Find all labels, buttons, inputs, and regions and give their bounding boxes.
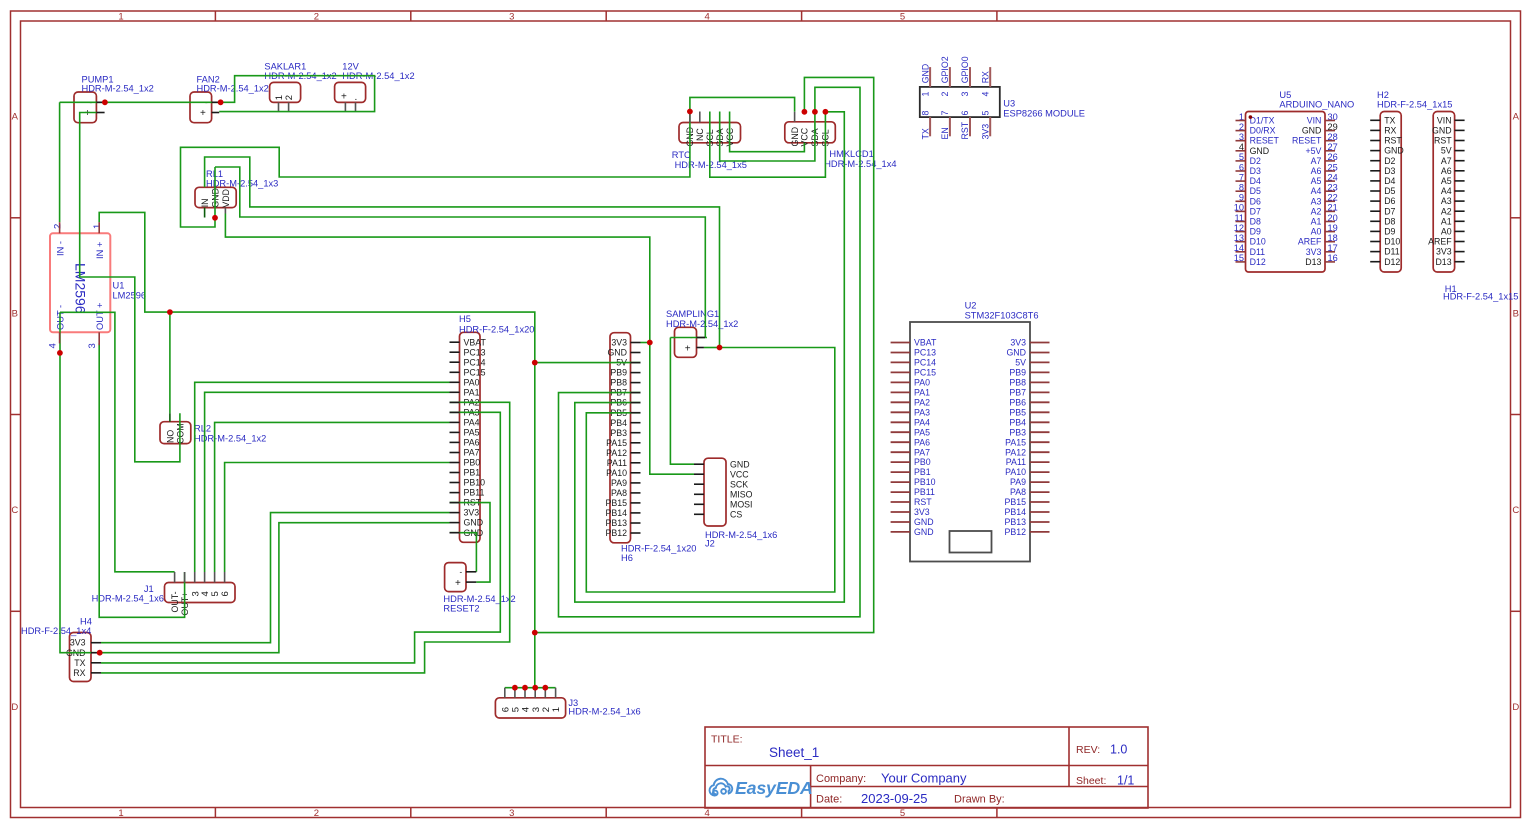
svg-text:Drawn By:: Drawn By:: [954, 794, 1005, 806]
svg-text:+: +: [455, 578, 461, 589]
wire J1 pin6 to H5 PB0: [225, 463, 450, 573]
svg-text:A2: A2: [1311, 206, 1322, 216]
connector RL2 HDR-M-2.54_1x2: [160, 422, 266, 444]
svg-text:D8: D8: [1384, 216, 1395, 226]
svg-text:VIN: VIN: [1437, 115, 1452, 125]
svg-text:+5V: +5V: [1305, 146, 1321, 156]
svg-text:PA11: PA11: [607, 458, 627, 468]
svg-text:IN +: IN +: [95, 242, 105, 259]
svg-text:1: 1: [118, 12, 123, 23]
svg-text:D10: D10: [1384, 237, 1400, 247]
connector H1 HDR-F-2.54_1x15: [1428, 112, 1518, 302]
svg-text:Sheet_1: Sheet_1: [769, 745, 819, 760]
svg-text:VIN: VIN: [1307, 116, 1322, 126]
svg-text:1: 1: [551, 707, 562, 712]
svg-text:D11: D11: [1250, 247, 1266, 257]
svg-text:A7: A7: [1311, 156, 1322, 166]
svg-text:D5: D5: [1250, 186, 1261, 196]
svg-text:6: 6: [220, 591, 231, 596]
svg-text:PA15: PA15: [1005, 437, 1026, 447]
svg-text:Sheet:: Sheet:: [1076, 775, 1106, 787]
svg-text:ARDUINO_NANO: ARDUINO_NANO: [1279, 100, 1354, 110]
svg-text:D12: D12: [1250, 257, 1266, 267]
svg-text:3: 3: [509, 12, 514, 23]
wire H5 RST to RESET2 plus: [450, 503, 491, 582]
svg-text:HDR-M-2.54_1x3: HDR-M-2.54_1x3: [206, 179, 278, 189]
svg-text:3V3: 3V3: [1306, 247, 1322, 257]
svg-text:+: +: [85, 108, 91, 119]
svg-text:PB15: PB15: [1004, 497, 1026, 507]
svg-text:H5: H5: [459, 314, 471, 324]
wire J3 pin rail: [505, 687, 556, 689]
wire HMKLCD VCC branch: [535, 77, 874, 632]
svg-text:+: +: [341, 92, 347, 103]
connector J1 HDR-M-2.54_1x6: [92, 583, 235, 616]
svg-text:PA15: PA15: [606, 438, 627, 448]
junction HMKLCD VCC branch: [532, 630, 538, 636]
svg-text:MISO: MISO: [730, 489, 753, 499]
svg-text:D4: D4: [1250, 176, 1261, 186]
connector SAMPLING1 HDR-M-2.54_1x2: [666, 309, 738, 357]
junction SAMPLING1 plus pin: [717, 345, 723, 351]
svg-text:D: D: [1512, 702, 1519, 713]
svg-text:PA9: PA9: [1010, 477, 1026, 487]
svg-text:A4: A4: [1311, 186, 1322, 196]
svg-text:Your Company: Your Company: [881, 771, 967, 786]
svg-text:GND: GND: [1432, 126, 1452, 136]
svg-text:PA2: PA2: [914, 397, 930, 407]
svg-text:AREF: AREF: [1298, 237, 1322, 247]
svg-text:U1: U1: [113, 281, 125, 291]
svg-text:PA3: PA3: [914, 407, 930, 417]
wire RTC SDA to HMKLCD SDA: [720, 112, 815, 162]
svg-text:VDD: VDD: [221, 189, 231, 208]
wire RTC GND to HMKLCD GND: [690, 97, 795, 111]
svg-text:A0: A0: [1311, 227, 1322, 237]
junction HMKLCD SCL pin: [823, 109, 829, 115]
svg-text:GND: GND: [1006, 348, 1026, 358]
svg-text:2023-09-25: 2023-09-25: [861, 791, 928, 806]
svg-text:3V3: 3V3: [464, 508, 480, 518]
svg-text:H2: H2: [1377, 90, 1389, 100]
junction H6 5V branch: [532, 360, 538, 366]
svg-text:SAMPLING1: SAMPLING1: [666, 309, 719, 319]
svg-text:4: 4: [48, 343, 59, 348]
svg-text:12V: 12V: [342, 61, 359, 71]
svg-text:ESP8266 MODULE: ESP8266 MODULE: [1003, 108, 1085, 118]
svg-text:PB4: PB4: [610, 418, 627, 428]
svg-text:PB13: PB13: [605, 518, 627, 528]
svg-text:PB1: PB1: [914, 467, 931, 477]
svg-text:IN -: IN -: [56, 241, 66, 256]
wire J1 pin4 to H5 PA1: [205, 392, 450, 572]
svg-text:5V: 5V: [1015, 358, 1026, 368]
svg-text:PA6: PA6: [464, 438, 480, 448]
svg-text:HDR-M-2.54_1x2: HDR-M-2.54_1x2: [666, 319, 738, 329]
svg-text:TX: TX: [1384, 115, 1395, 125]
svg-text:GPIO2: GPIO2: [940, 56, 950, 83]
svg-text:RST: RST: [1434, 136, 1452, 146]
svg-text:TITLE:: TITLE:: [711, 734, 743, 746]
svg-text:PB14: PB14: [1004, 507, 1026, 517]
wire HMKLCD SCL to H6 PB6: [575, 112, 845, 602]
svg-text:PC14: PC14: [914, 358, 936, 368]
svg-text:PA8: PA8: [1010, 487, 1026, 497]
junction H4 GND pin: [97, 650, 103, 656]
svg-text:D3: D3: [1250, 166, 1261, 176]
svg-text:HDR-M-2.54_1x2: HDR-M-2.54_1x2: [197, 83, 269, 93]
wire J1 pin3 to H5 PA0: [195, 382, 450, 572]
connector J3 HDR-M-2.54_1x6: [495, 698, 640, 718]
svg-text:2: 2: [53, 224, 64, 229]
svg-text:OUT +: OUT +: [95, 303, 105, 330]
svg-text:PA7: PA7: [464, 448, 480, 458]
connector HMKLCD1 HDR-M-2.54_1x4: [785, 122, 897, 169]
svg-text:GND: GND: [730, 459, 750, 469]
svg-text:A6: A6: [1441, 166, 1452, 176]
svg-text:D13: D13: [1305, 257, 1321, 267]
svg-text:AREF: AREF: [1428, 237, 1452, 247]
svg-text:U5: U5: [1279, 90, 1291, 100]
wire RL1 GND loop to RTC GND: [181, 112, 690, 228]
junction RL1 GND pin: [212, 215, 218, 221]
svg-text:PC13: PC13: [464, 347, 486, 357]
svg-text:PA5: PA5: [464, 428, 480, 438]
svg-text:PB12: PB12: [1004, 527, 1026, 537]
svg-text:HDR-M-2.54_1x2: HDR-M-2.54_1x2: [443, 594, 515, 604]
svg-text:D5: D5: [1384, 186, 1395, 196]
svg-text:GPIO0: GPIO0: [960, 56, 970, 83]
svg-text:C: C: [11, 505, 18, 516]
svg-text:D: D: [11, 702, 18, 713]
svg-text:3V3: 3V3: [611, 338, 627, 348]
svg-text:PA6: PA6: [914, 437, 930, 447]
svg-text:GND: GND: [1302, 126, 1322, 136]
svg-text:3V3: 3V3: [914, 507, 930, 517]
connector RESET2 HDR-M-2.54_1x2: [443, 563, 515, 614]
svg-text:A5: A5: [1311, 176, 1322, 186]
svg-text:PB9: PB9: [610, 368, 627, 378]
component pin stubs: [60, 67, 1465, 698]
svg-text:7: 7: [940, 111, 950, 116]
svg-text:RESET2: RESET2: [443, 604, 479, 614]
svg-text:1: 1: [920, 92, 930, 97]
svg-text:EN: EN: [940, 127, 950, 139]
svg-text:H6: H6: [621, 553, 633, 563]
svg-text:HDR-F-2.54_1x20: HDR-F-2.54_1x20: [621, 544, 696, 554]
wire H4 RX to H5 PA2: [101, 402, 510, 673]
wire H5 GND2 to RESET2 minus: [450, 533, 477, 572]
svg-text:LM2596: LM2596: [113, 290, 147, 300]
svg-text:D6: D6: [1384, 196, 1395, 206]
svg-text:PB11: PB11: [914, 487, 935, 497]
connector RTC HDR-M-2.54_1x5: [672, 123, 747, 171]
svg-text:SCK: SCK: [730, 479, 748, 489]
svg-text:A3: A3: [1441, 196, 1452, 206]
svg-text:HMKLCD1: HMKLCD1: [829, 149, 873, 159]
svg-text:PB10: PB10: [464, 478, 486, 488]
svg-text:2: 2: [284, 95, 295, 100]
svg-text:D12: D12: [1384, 257, 1400, 267]
svg-text:PB8: PB8: [1009, 378, 1026, 388]
wire RL1 IN loop to SAMPLING1 plus and H6 PB5: [205, 157, 720, 348]
module U5 ARDUINO_NANO: [1234, 90, 1355, 272]
svg-text:PC13: PC13: [914, 348, 936, 358]
svg-text:PB0: PB0: [464, 458, 481, 468]
wire H6 5V branch: [535, 362, 641, 364]
junction H6 3V3 pin: [647, 340, 653, 346]
wire HMKLCD SDA to H6 PB7: [559, 87, 861, 617]
title block: [705, 727, 1148, 808]
wire J1 pin5 to H5 PA4: [215, 422, 450, 572]
svg-text:J2: J2: [705, 539, 715, 549]
connector H2 HDR-F-2.54_1x15: [1377, 90, 1452, 272]
svg-text:A1: A1: [1311, 217, 1322, 227]
svg-text:PB6: PB6: [1009, 397, 1026, 407]
svg-text:C: C: [1512, 505, 1519, 516]
svg-text:B: B: [1513, 308, 1519, 319]
wire PUMP- FAN- top rail: [60, 76, 375, 112]
wire RL1 GND to SAMPLING1 minus and J2 GND: [215, 167, 705, 338]
junction RL2 NO branch: [167, 309, 173, 315]
wire PUMP- to U1 IN-: [59, 102, 61, 222]
svg-text:PB3: PB3: [1009, 427, 1026, 437]
wire U1 OUT+ to J1 OUT+: [99, 343, 184, 617]
svg-text:GND: GND: [1250, 146, 1270, 156]
svg-text:RST: RST: [914, 497, 932, 507]
svg-text:PC15: PC15: [464, 367, 486, 377]
svg-text:PA7: PA7: [914, 447, 930, 457]
svg-text:+: +: [200, 108, 206, 119]
svg-text:GND: GND: [790, 127, 800, 147]
svg-text:D7: D7: [1384, 206, 1395, 216]
svg-text:A: A: [12, 112, 19, 123]
svg-text:PA4: PA4: [464, 418, 480, 428]
svg-text:A3: A3: [1311, 196, 1322, 206]
svg-text:D11: D11: [1384, 247, 1400, 257]
svg-text:5: 5: [900, 12, 905, 23]
svg-text:D9: D9: [1384, 227, 1395, 237]
svg-text:1: 1: [118, 808, 123, 819]
svg-text:D2: D2: [1250, 156, 1261, 166]
svg-text:GND: GND: [1384, 146, 1404, 156]
svg-text:A4: A4: [1441, 186, 1452, 196]
connector J2 HDR-M-2.54_1x6: [704, 458, 777, 548]
svg-text:PB5: PB5: [1009, 407, 1026, 417]
svg-text:D3: D3: [1384, 166, 1395, 176]
svg-text:NC: NC: [695, 128, 705, 141]
svg-text:PB15: PB15: [605, 498, 627, 508]
svg-text:1/1: 1/1: [1117, 774, 1134, 788]
svg-text:1.0: 1.0: [1110, 743, 1127, 757]
svg-text:A6: A6: [1311, 166, 1322, 176]
svg-text:NO: NO: [165, 430, 175, 443]
svg-text:PB8: PB8: [610, 378, 627, 388]
svg-text:U3: U3: [1003, 99, 1015, 109]
svg-text:5: 5: [900, 808, 905, 819]
svg-text:PA12: PA12: [1005, 447, 1026, 457]
connector PUMP1 HDR-M-2.54_1x2: [74, 74, 154, 122]
svg-text:PA1: PA1: [914, 388, 930, 398]
svg-text:.: .: [355, 92, 358, 103]
module U3 ESP8266: [920, 56, 1085, 139]
junction PUMP1 minus pin: [102, 99, 108, 105]
svg-text:Company:: Company:: [816, 773, 866, 785]
svg-text:PB3: PB3: [610, 428, 627, 438]
svg-text:SAKLAR1: SAKLAR1: [264, 61, 306, 71]
svg-text:3V3: 3V3: [1010, 338, 1026, 348]
svg-text:RESET: RESET: [1292, 136, 1322, 146]
svg-text:PB10: PB10: [914, 477, 936, 487]
svg-text:CS: CS: [730, 509, 742, 519]
wire RL1 VDD 3V3 net to H6 3V3 and J2 VCC: [225, 214, 694, 475]
junction U1 OUT- pin: [57, 350, 63, 356]
wire GND rail to J1 OUT-: [60, 312, 175, 572]
svg-text:D7: D7: [1250, 206, 1261, 216]
svg-text:RST: RST: [1384, 136, 1402, 146]
svg-text:Date:: Date:: [816, 794, 842, 806]
connector RL1 HDR-M-2.54_1x3: [195, 169, 278, 208]
svg-text:RTC: RTC: [672, 150, 691, 160]
svg-text:HDR-M-2.54_1x2: HDR-M-2.54_1x2: [82, 83, 154, 93]
junction FAN2 minus pin: [218, 99, 224, 105]
svg-text:B: B: [12, 308, 18, 319]
junction J3 pin5: [512, 685, 518, 691]
svg-text:HDR-M-2.54_1x6: HDR-M-2.54_1x6: [705, 530, 777, 540]
svg-text:D8: D8: [1250, 217, 1261, 227]
svg-text:PA5: PA5: [914, 427, 930, 437]
svg-text:2: 2: [940, 92, 950, 97]
svg-text:A2: A2: [1441, 206, 1452, 216]
svg-text:RST: RST: [960, 121, 970, 139]
svg-text:PB7: PB7: [1009, 388, 1026, 398]
svg-text:D1/TX: D1/TX: [1250, 116, 1275, 126]
svg-text:PB0: PB0: [914, 457, 931, 467]
svg-text:3: 3: [509, 808, 514, 819]
svg-text:TX: TX: [74, 658, 85, 668]
svg-text:HDR-F-2.54_1x15: HDR-F-2.54_1x15: [1443, 292, 1518, 302]
connector 12V HDR-M-2.54_1x2: [335, 61, 415, 103]
wire 12V+ net: U1 IN+ to RL2 NO, H6 5V, HMKLCD VCC, J3: [99, 212, 535, 687]
mcu U2 STM32F103C8T6: [910, 301, 1038, 562]
svg-text:RESET: RESET: [1250, 136, 1280, 146]
connector SAKLAR1 HDR-M-2.54_1x2: [264, 61, 336, 102]
connector FAN2 HDR-M-2.54_1x2: [190, 74, 269, 122]
svg-text:3: 3: [87, 343, 98, 348]
svg-text:PA0: PA0: [464, 377, 480, 387]
svg-text:HDR-M-2.54_1x6: HDR-M-2.54_1x6: [92, 594, 164, 604]
wire PUMP+ to RL2 COM: [80, 113, 180, 462]
svg-text:GND: GND: [914, 527, 934, 537]
svg-text:TX: TX: [920, 128, 930, 139]
svg-text:RX: RX: [73, 668, 85, 678]
svg-text:A7: A7: [1441, 156, 1452, 166]
svg-text:D0/RX: D0/RX: [1250, 126, 1276, 136]
junction HMKLCD VCC pin: [802, 109, 808, 115]
svg-text:PB14: PB14: [605, 508, 627, 518]
svg-text:RL2: RL2: [194, 423, 211, 433]
svg-text:2: 2: [314, 808, 319, 819]
junction J3 pin4: [522, 685, 528, 691]
svg-text:3V3: 3V3: [980, 124, 990, 140]
svg-text:D10: D10: [1250, 237, 1266, 247]
svg-text:HDR-F-2.54_1x20: HDR-F-2.54_1x20: [459, 324, 534, 334]
svg-text:2: 2: [314, 12, 319, 23]
svg-text:PC14: PC14: [464, 357, 486, 367]
svg-text:PB4: PB4: [1009, 417, 1026, 427]
wire RTC VCC to HMKLCD VCC: [730, 112, 805, 152]
connector H5 HDR-F-2.54_1x20: [459, 314, 534, 542]
svg-text:IN: IN: [200, 198, 210, 207]
svg-text:HDR-F-2.54_1x4: HDR-F-2.54_1x4: [21, 626, 91, 636]
connector H4 HDR-F-2.54_1x4: [21, 617, 92, 682]
EasyEDA logo: [709, 778, 812, 798]
svg-text:H4: H4: [80, 617, 92, 627]
svg-text:J1: J1: [144, 584, 154, 594]
svg-text:PA9: PA9: [611, 478, 627, 488]
svg-text:RX: RX: [1384, 126, 1396, 136]
svg-text:PA11: PA11: [1006, 457, 1026, 467]
svg-text:5: 5: [980, 111, 990, 116]
junction J3 pin3: [532, 685, 538, 691]
svg-text:3: 3: [960, 92, 970, 97]
svg-text:PB11: PB11: [464, 488, 485, 498]
svg-text:PA1: PA1: [464, 387, 480, 397]
svg-text:MOSI: MOSI: [730, 499, 752, 509]
svg-text:4: 4: [705, 12, 710, 23]
svg-text:PA8: PA8: [611, 488, 627, 498]
wire GND rail U1 OUT- to H4 H5 GND: [60, 312, 450, 652]
svg-text:OUT-: OUT-: [170, 591, 180, 612]
svg-text:D13: D13: [1435, 257, 1451, 267]
junction RTC GND pin: [687, 109, 693, 115]
svg-text:EasyEDA: EasyEDA: [735, 778, 813, 798]
svg-text:D6: D6: [1250, 196, 1261, 206]
svg-text:3V3: 3V3: [1436, 247, 1452, 257]
svg-text:PA4: PA4: [914, 417, 930, 427]
svg-text:VBAT: VBAT: [464, 337, 487, 347]
svg-text:+: +: [685, 343, 691, 354]
svg-text:PA10: PA10: [1005, 467, 1026, 477]
svg-text:PA12: PA12: [606, 448, 627, 458]
wire H4 3V3 to H5 3V3: [101, 513, 450, 643]
svg-text:4: 4: [705, 808, 710, 819]
svg-text:VCC: VCC: [730, 469, 749, 479]
svg-text:PC15: PC15: [914, 368, 936, 378]
wire RL2 NO branch: [169, 312, 171, 413]
svg-text:HDR-F-2.54_1x15: HDR-F-2.54_1x15: [1377, 100, 1452, 110]
svg-text:8: 8: [920, 111, 930, 116]
svg-text:D4: D4: [1384, 176, 1395, 186]
svg-text:U2: U2: [965, 301, 977, 311]
svg-text:REV:: REV:: [1076, 744, 1100, 756]
junction HMKLCD SDA pin: [812, 109, 818, 115]
svg-text:3V3: 3V3: [70, 638, 86, 648]
regulator U1 LM2596: [48, 224, 147, 349]
svg-text:-: -: [460, 567, 463, 576]
wire H4 TX to H5 PA3: [101, 412, 500, 663]
svg-text:A5: A5: [1441, 176, 1452, 186]
svg-text:PA0: PA0: [914, 378, 930, 388]
svg-text:HDR-M-2.54_1x6: HDR-M-2.54_1x6: [568, 707, 640, 717]
svg-text:PB9: PB9: [1009, 368, 1026, 378]
svg-text:PB13: PB13: [1004, 517, 1026, 527]
svg-text:1: 1: [92, 224, 103, 229]
junction J3 pin2: [542, 685, 548, 691]
svg-text:GND: GND: [914, 517, 934, 527]
svg-text:GND: GND: [920, 64, 930, 84]
svg-text:PB12: PB12: [605, 528, 627, 538]
